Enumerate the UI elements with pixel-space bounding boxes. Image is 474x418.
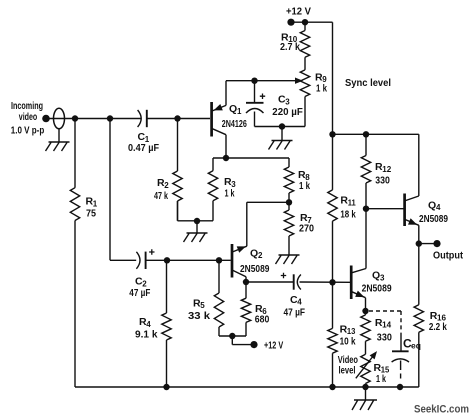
label: +12 V supply (top) — [286, 6, 311, 17]
transistor Q4 collector lead — [405, 134, 418, 200]
transistor Q3 emitter arrow — [355, 291, 364, 298]
svg-text:75: 75 — [86, 208, 96, 220]
connector: input jack ellipse — [54, 108, 65, 129]
resistor R12 330 — [361, 134, 370, 208]
label: R16 designator — [430, 310, 447, 323]
transistor Q1 collector lead (bottom) — [212, 129, 226, 158]
label: R13 value 10 k — [340, 335, 356, 347]
resistor R11 18k — [328, 134, 337, 282]
label: C4 designator — [290, 294, 302, 307]
junction: emitter wire / C3 top — [251, 78, 257, 84]
wire: C4 to Q3 base — [300, 281, 351, 283]
ground: C3/R9 ground — [269, 141, 293, 150]
resistor R3 1k — [208, 171, 217, 221]
wire: input bus from terminal to C1 — [46, 118, 141, 120]
junction: Q2 base / R5 node — [216, 257, 222, 263]
capacitor Ceq curved plate (bottom) — [392, 359, 409, 362]
capacitor C1 curved plate — [138, 110, 142, 127]
wire: input jack ground stem — [58, 129, 60, 142]
capacitor C2 curved plate — [136, 252, 140, 269]
resistor R6 680 — [241, 282, 250, 336]
wire: R2/R3 ground stem — [196, 221, 198, 233]
svg-text:2: 2 — [258, 251, 263, 260]
junction: C1 / R2 / Q1 base — [174, 115, 180, 121]
label: R5 designator — [193, 297, 205, 310]
svg-text:2N5089: 2N5089 — [240, 264, 270, 275]
svg-text:Sync level: Sync level — [345, 78, 391, 89]
label: R9 value 1 k — [316, 82, 327, 94]
svg-text:Q: Q — [428, 199, 436, 211]
label: R15 designator — [374, 362, 390, 375]
label: R1 designator — [86, 196, 98, 209]
svg-text:2.2 k: 2.2 k — [429, 321, 447, 333]
svg-text:220 µF: 220 µF — [272, 107, 303, 118]
wire: Q1 emitter to R9 wiper — [226, 80, 296, 82]
transistor Q2 emitter arrow (points away) — [237, 246, 246, 252]
junction: C3/R9 ground node — [279, 123, 285, 129]
svg-text:10 k: 10 k — [340, 335, 356, 347]
label: C2 plus sign — [149, 249, 154, 254]
resistor R10 2.7k — [300, 22, 309, 70]
wire: R2/R3 bottom tie — [178, 201, 214, 221]
label: R8 designator — [298, 169, 310, 182]
label: +12 V supply (bottom) — [264, 340, 283, 351]
label: R7 designator — [300, 212, 312, 225]
wire: +12V rail to right column — [291, 22, 333, 134]
svg-text:47 µF: 47 µF — [284, 307, 306, 318]
svg-text:47 µF: 47 µF — [129, 288, 150, 299]
label: C3 plus sign — [260, 94, 265, 100]
node: +12V terminal (top) — [287, 19, 294, 26]
wire: C3 top lead — [254, 81, 256, 103]
label: Q2 type 2N5089 — [240, 264, 270, 275]
label: C3 designator — [278, 94, 290, 107]
resistor R1 75 — [70, 119, 79, 221]
label: R15 value 1 k — [376, 373, 386, 385]
label: R4 value 9.1 k — [135, 329, 158, 341]
label: Q1 type 2N4126 — [222, 119, 247, 130]
capacitor C4 curved plate — [297, 275, 301, 290]
capacitor C3 straight plate (top) — [246, 102, 264, 104]
resistor R7 270 — [284, 202, 293, 254]
capacitor C2 straight plate — [145, 252, 147, 269]
junction: input bus / C2 branch — [107, 115, 113, 121]
transistor Q3 base bar — [350, 266, 353, 300]
transistor Q3 emitter lead — [352, 292, 366, 311]
label: R10 value 2.7 k — [280, 41, 300, 53]
junction: input bus / R1 — [72, 115, 78, 121]
svg-text:1 k: 1 k — [225, 188, 235, 200]
ground: R2/R3 ground — [184, 233, 208, 242]
svg-text:level: level — [339, 366, 356, 377]
resistor R16 2.2k — [414, 244, 423, 333]
svg-text:18 k: 18 k — [340, 208, 356, 220]
label: Sync level — [345, 78, 391, 89]
label: Incoming video 1.0 V p-p — [11, 101, 45, 137]
junction: bottom rail / R13 — [329, 384, 335, 390]
label: R8 value 1 k — [299, 180, 310, 192]
wire: bottom rail — [75, 221, 419, 388]
wire: Q1 collector node to R3 top — [213, 158, 226, 171]
node: +12V terminal (bottom) — [250, 341, 257, 348]
capacitor Ceq straight plate (top) — [392, 350, 409, 352]
wire: Ceq bottom lead solid — [400, 361, 402, 371]
svg-text:Video: Video — [338, 355, 358, 366]
svg-text:Output: Output — [433, 250, 464, 261]
potentiometer R15 1k — [361, 354, 370, 387]
label: R11 value 18 k — [340, 208, 356, 220]
svg-text:14: 14 — [382, 321, 392, 330]
label: C1 value 0.47 uF — [128, 143, 159, 154]
ground: main bottom ground — [352, 400, 377, 410]
label: C1 designator — [138, 131, 150, 144]
node: incoming video input terminal — [42, 115, 50, 123]
svg-text:2.7 k: 2.7 k — [280, 41, 300, 53]
wire: R8/R7 node to Q2 top lead — [247, 202, 289, 246]
label: R16 value 2.2 k — [429, 321, 447, 333]
svg-text:1: 1 — [237, 107, 242, 116]
svg-text:4: 4 — [436, 203, 441, 212]
junction: +12V rail / R11 top — [329, 131, 335, 137]
svg-text:Incoming: Incoming — [11, 101, 43, 112]
wire: C3 bottom lead — [254, 112, 256, 127]
svg-text:2N5089: 2N5089 — [362, 284, 392, 295]
svg-text:47 k: 47 k — [154, 190, 168, 202]
resistor R5 33k — [214, 260, 223, 336]
svg-text:1 k: 1 k — [316, 82, 327, 94]
junction: +12V rail / R10 — [302, 19, 308, 25]
svg-text:0.47 µF: 0.47 µF — [128, 143, 159, 154]
svg-text:270: 270 — [299, 223, 314, 235]
wire: dashed Ceq bottom lead — [400, 374, 402, 379]
transistor Q4 emitter lead — [405, 220, 418, 244]
transistor Q2 base bar — [231, 244, 234, 278]
wire: R5/R6 bottom tie to +12V — [219, 336, 251, 345]
wire: C2 to Q2 base — [146, 259, 231, 261]
label: C2 value 47 uF — [129, 288, 150, 299]
svg-text:+12 V: +12 V — [286, 6, 311, 17]
svg-text:330: 330 — [375, 175, 390, 187]
wire: C3 bottom to R9 bottom — [255, 126, 306, 128]
label: R13 designator — [340, 323, 356, 336]
junction: C2 / R4 node — [164, 257, 170, 263]
svg-text:video: video — [19, 112, 38, 123]
ground: R7 ground — [276, 255, 300, 264]
wire: Ceq top lead solid — [400, 336, 402, 351]
junction: Q4 emitter / output node — [416, 240, 422, 246]
junction: R5/R6 tie — [229, 333, 235, 339]
label: R11 designator — [340, 195, 356, 208]
wire: Q2 bottom node to C4 — [246, 281, 294, 283]
label: R14 designator — [375, 317, 392, 330]
capacitor C1 straight plate — [146, 110, 148, 127]
ground: input jack — [46, 142, 70, 151]
svg-text:1 k: 1 k — [299, 180, 310, 192]
label: R5 value 33 k — [188, 310, 210, 322]
wire: C1 to Q1 base — [147, 118, 210, 120]
resistor R8 1k — [284, 167, 293, 202]
label: C4 value 47 uF — [284, 307, 306, 318]
transistor Q1 emitter lead (top) — [212, 81, 226, 111]
resistor R14 330 — [361, 311, 370, 354]
transistor Q2 bottom lead — [233, 270, 246, 282]
svg-text:3: 3 — [380, 273, 385, 282]
resistor R4 9.1k — [162, 260, 171, 387]
label: Q1 designator — [229, 103, 242, 116]
junction: R2/R3 ground node — [194, 218, 200, 224]
svg-text:Q: Q — [250, 247, 258, 259]
svg-text:1 k: 1 k — [376, 373, 386, 385]
label: Ceq designator — [403, 337, 421, 351]
svg-text:9.1 k: 9.1 k — [135, 329, 158, 341]
wire: bottom ground stem — [365, 387, 367, 400]
svg-text:Q: Q — [372, 270, 380, 282]
transistor Q1 emitter arrow (PNP, points to base) — [214, 104, 223, 110]
wire: dashed link Q3 emitter to Ceq — [369, 310, 402, 312]
svg-text:4: 4 — [146, 320, 151, 329]
junction: bottom rail / Ceq — [397, 384, 403, 390]
capacitor C4 straight plate — [293, 274, 295, 289]
label: R2 designator — [157, 177, 169, 190]
svg-text:680: 680 — [255, 314, 270, 326]
junction: +12V rail / R12 top — [363, 131, 369, 137]
wire: Q3 collector to Q4 base node — [352, 209, 366, 273]
potentiometer R9 wiper arrow — [295, 78, 303, 84]
label: Output — [433, 250, 464, 261]
resistor R2 47k — [173, 119, 182, 221]
label: R3 value 1 k — [225, 188, 235, 200]
label: SeekIC.com watermark — [414, 404, 469, 416]
label: R2 value 47 k — [154, 190, 168, 202]
junction: bottom rail / R4 — [163, 384, 169, 390]
wire: Q1 collector node to R8 — [226, 158, 289, 167]
label: R1 value 75 — [86, 208, 96, 220]
svg-text:+12 V: +12 V — [264, 340, 283, 351]
junction: R12 bottom / Q4 base / Q3 collector — [363, 206, 369, 212]
label: Q2 designator — [250, 247, 263, 260]
wire: output stub — [419, 243, 437, 245]
junction: C4 / R11 / R13 / Q3 base node — [329, 279, 335, 285]
wire: dashed Ceq top lead — [400, 311, 402, 336]
transistor Q4 base bar — [403, 194, 406, 227]
svg-text:5: 5 — [200, 301, 205, 310]
label: R7 value 270 — [299, 223, 314, 235]
label: R12 designator — [375, 161, 392, 174]
label: C2 designator — [135, 276, 147, 289]
svg-text:2: 2 — [164, 181, 169, 190]
svg-text:330: 330 — [377, 332, 392, 344]
transistor Q1 base bar — [210, 102, 213, 137]
svg-text:Q: Q — [229, 103, 237, 115]
wire: Q4 base — [366, 208, 404, 210]
wire: input branch down to C2 — [110, 119, 136, 261]
potentiometer R15 wiper arrow — [370, 351, 377, 359]
svg-text:2N4126: 2N4126 — [222, 119, 247, 130]
label: Video level — [338, 355, 358, 377]
label: Q3 designator — [372, 270, 385, 283]
node: output terminal — [433, 240, 440, 247]
junction: bottom rail / ground — [362, 384, 368, 390]
svg-text:4: 4 — [297, 298, 302, 307]
wire: +12V column to Q4 collector — [333, 133, 419, 135]
transistor Q4 emitter arrow — [408, 218, 417, 225]
svg-text:12: 12 — [382, 165, 392, 174]
svg-text:11: 11 — [348, 198, 357, 207]
junction: Q2 bottom / C4 / R6 node — [243, 279, 249, 285]
svg-text:1.0 V p-p: 1.0 V p-p — [11, 126, 45, 137]
svg-text:33 k: 33 k — [188, 310, 210, 322]
label: Q4 designator — [428, 199, 441, 212]
label: C3 value 220 uF — [272, 107, 303, 118]
label: R12 value 330 — [375, 175, 390, 187]
potentiometer R9 1k — [300, 70, 309, 127]
label: Q3 type 2N5089 — [362, 284, 392, 295]
label: R4 designator — [139, 316, 151, 329]
label: R10 designator — [281, 31, 298, 44]
label: R3 designator — [224, 176, 236, 189]
capacitor C3 curved plate (bottom) — [246, 109, 264, 114]
potentiometer R15 wiper line — [356, 357, 373, 378]
label: R6 designator — [255, 303, 267, 316]
label: R14 value 330 — [377, 332, 392, 344]
label: R6 value 680 — [255, 314, 270, 326]
svg-text:3: 3 — [285, 97, 290, 106]
transistor Q2 top lead — [233, 246, 247, 252]
label: C4 plus sign — [281, 273, 286, 278]
label: Q4 type 2N5089 — [419, 214, 448, 225]
label: R9 designator — [315, 71, 327, 84]
svg-text:2N5089: 2N5089 — [419, 214, 448, 225]
junction: Q1 collector node — [223, 155, 229, 161]
wire: ground stem below C3 — [281, 127, 283, 141]
junction: R8/R7/Q2 collector node — [286, 199, 292, 205]
junction: Q3 emitter / R14 node — [362, 308, 368, 314]
svg-text:SeekIC.com: SeekIC.com — [414, 404, 469, 416]
resistor R13 10k — [328, 282, 337, 387]
